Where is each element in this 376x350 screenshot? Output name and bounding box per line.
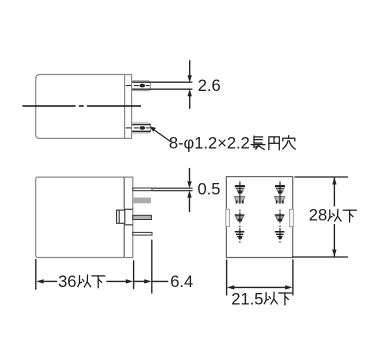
svg-text:28: 28 (309, 207, 327, 225)
svg-text:2.6: 2.6 (198, 77, 221, 95)
svg-text:8-φ1.2×2.2: 8-φ1.2×2.2 (169, 134, 250, 152)
svg-text:6.4: 6.4 (170, 273, 193, 291)
svg-text:36: 36 (58, 273, 76, 291)
svg-text:0.5: 0.5 (198, 181, 221, 199)
svg-text:21.5: 21.5 (231, 290, 263, 308)
